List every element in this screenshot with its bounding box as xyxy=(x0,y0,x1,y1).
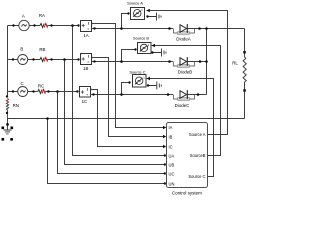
ground block C xyxy=(148,82,161,90)
wire neutral to UN xyxy=(48,119,166,184)
current measurement 1A xyxy=(81,21,94,38)
svg-text:RB: RB xyxy=(39,47,45,52)
subsystem Source B xyxy=(133,36,151,54)
wire UC tap xyxy=(58,92,166,174)
svg-text:UN: UN xyxy=(169,181,175,186)
diode anode dots xyxy=(168,27,171,30)
svg-text:Source C: Source C xyxy=(188,174,205,179)
svg-text:UC: UC xyxy=(169,171,175,176)
AC source A xyxy=(19,14,29,31)
AC source B xyxy=(18,46,28,64)
svg-text:Source C: Source C xyxy=(129,70,145,75)
wire row B xyxy=(8,59,80,61)
subsystem Control system xyxy=(167,123,208,196)
svg-text:DiodeB: DiodeB xyxy=(178,70,192,75)
svg-text:DiodeA: DiodeA xyxy=(176,36,190,41)
diode DiodeA xyxy=(174,24,245,41)
current measurement 1B xyxy=(81,54,94,72)
resistor RN xyxy=(6,99,19,119)
resistor RC xyxy=(38,84,46,94)
AC source C xyxy=(18,81,28,96)
wire 1B measurement to IB xyxy=(93,58,166,137)
wire left bus vertical xyxy=(7,26,9,97)
arrow into Source B xyxy=(152,44,155,47)
wire cathode bus xyxy=(206,29,208,95)
RN port dots xyxy=(6,95,8,97)
wire control out Source A xyxy=(147,11,228,135)
svg-text:RA: RA xyxy=(39,13,45,18)
wire UA tap xyxy=(73,26,166,156)
svg-text:UA: UA xyxy=(169,153,175,158)
svg-text:RN: RN xyxy=(13,103,19,108)
svg-text:RC: RC xyxy=(38,84,44,89)
wire source A loop xyxy=(122,14,129,29)
RL port dots xyxy=(243,51,246,54)
wire row C xyxy=(8,91,79,93)
cathode bus junction dots xyxy=(205,27,208,30)
svg-text:C: C xyxy=(21,81,24,86)
svg-text:IB: IB xyxy=(169,134,173,139)
junction dots source loops xyxy=(120,27,123,30)
subsystem Source C xyxy=(129,70,146,88)
svg-text:Source A: Source A xyxy=(189,132,206,137)
svg-text:Source A: Source A xyxy=(127,1,143,6)
svg-text:1B: 1B xyxy=(83,66,88,71)
node dots row A xyxy=(12,24,14,26)
current measurement 1C xyxy=(80,87,93,104)
port dots source left xyxy=(127,12,129,14)
svg-text:A: A xyxy=(22,14,25,19)
arrow into Source A xyxy=(146,9,149,12)
wire source B loop xyxy=(122,50,136,62)
wire UB tap xyxy=(65,60,166,165)
svg-text:IA: IA xyxy=(169,125,173,130)
ground block B xyxy=(153,49,167,57)
diode DiodeB xyxy=(174,57,207,75)
wire bottom rail xyxy=(8,118,245,120)
wire control out Source C xyxy=(147,79,214,177)
resistor RL xyxy=(232,29,246,119)
input arrow IC xyxy=(163,145,166,149)
svg-text:IC: IC xyxy=(169,144,173,149)
input arrow IA xyxy=(163,126,166,130)
wire control out Source B xyxy=(152,46,221,156)
ground block A xyxy=(148,13,161,21)
svg-text:1C: 1C xyxy=(82,99,88,104)
wire diode row C xyxy=(90,94,173,96)
svg-text:UB: UB xyxy=(169,162,175,167)
svg-text:Source B: Source B xyxy=(133,36,149,41)
resistor RB xyxy=(39,47,47,62)
diode cathode dots xyxy=(198,27,201,30)
wire row A xyxy=(8,25,80,27)
svg-text:SourceB: SourceB xyxy=(190,153,206,158)
arrow into Source C xyxy=(147,77,150,80)
ground block (selected) xyxy=(2,119,14,141)
wire diode row A xyxy=(92,28,174,30)
svg-text:DiodeC: DiodeC xyxy=(175,103,190,108)
wire 1A measurement to IA xyxy=(93,24,166,128)
svg-text:B: B xyxy=(20,46,23,51)
wire 1C measurement to IC xyxy=(91,90,166,147)
port dots measurement outputs xyxy=(93,27,95,29)
subsystem Source A xyxy=(127,1,144,20)
diode DiodeC xyxy=(174,90,207,108)
svg-text:RL: RL xyxy=(232,60,238,65)
neutral junction dots xyxy=(46,117,49,120)
resistor RA xyxy=(39,13,48,27)
wire source C loop xyxy=(122,83,130,95)
input arrow IB xyxy=(163,135,166,139)
port dots source bottom right xyxy=(146,15,148,17)
node dots row C xyxy=(12,90,14,92)
junction and port dots xyxy=(6,12,246,184)
U input port dots xyxy=(164,154,166,156)
svg-text:1A: 1A xyxy=(83,33,88,38)
svg-text:Control system: Control system xyxy=(172,190,202,195)
node dots row B xyxy=(12,58,14,60)
wire diode row B xyxy=(92,61,174,63)
